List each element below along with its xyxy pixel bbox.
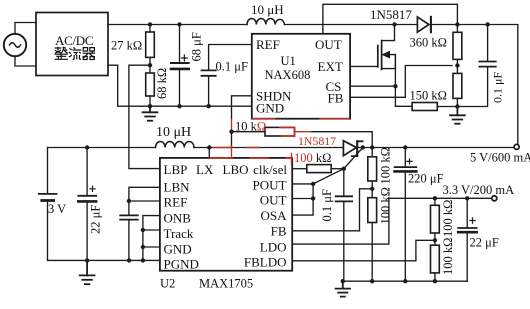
- ground G1: [143, 106, 158, 121]
- svg-text:GND: GND: [256, 101, 284, 116]
- svg-text:OSA: OSA: [260, 208, 287, 223]
- wire U2 LDO to 3.3V rail: [292, 198, 389, 244]
- capacitor C3 0.1uF right: [457, 25, 495, 107]
- wire lower rail battery to inductor L2: [48, 147, 156, 149]
- svg-text:REF: REF: [256, 37, 280, 52]
- svg-text:22 μF: 22 μF: [470, 236, 499, 250]
- wire bottom rail top circuit to U1 GND: [118, 105, 252, 107]
- svg-text:150 kΩ: 150 kΩ: [410, 89, 447, 103]
- svg-text:FBLDO: FBLDO: [244, 255, 287, 270]
- ground G2: [450, 107, 465, 124]
- svg-text:10 μH: 10 μH: [251, 2, 284, 17]
- svg-text:LBO: LBO: [223, 162, 249, 177]
- svg-text:POUT: POUT: [253, 178, 287, 193]
- wire POUT-OUT-OSA tie: [292, 184, 313, 215]
- svg-text:OUT: OUT: [260, 193, 287, 208]
- diode D1 1N5817 top: [417, 17, 431, 32]
- wire diagonal diode node to clk node: [344, 148, 363, 169]
- terminal 3.3V/200mA: [492, 196, 497, 201]
- wire SHDN node red segment: [231, 119, 233, 132]
- svg-text:AC/DC: AC/DC: [55, 33, 93, 48]
- svg-text:1N5817: 1N5817: [298, 134, 336, 148]
- svg-text:LBP: LBP: [164, 162, 188, 177]
- IC U2 MAX1705 box: [160, 158, 292, 271]
- capacitor C5 220uF electrolytic: [395, 148, 417, 282]
- svg-text:3.3 V/200 mA: 3.3 V/200 mA: [443, 183, 515, 197]
- svg-text:U1: U1: [281, 54, 296, 68]
- resistor R9 100k vertical lower mid: [368, 189, 377, 281]
- svg-text:U2: U2: [160, 277, 175, 291]
- wire lower rail L2 to diode D2: [194, 147, 343, 149]
- resistor R10 100k vertical right upper: [431, 198, 440, 240]
- resistor R5 360k vertical: [453, 25, 462, 66]
- wire LBO vertical to U2: [231, 132, 233, 146]
- diode D2 1N5817 schottky: [343, 141, 362, 156]
- wire U2 FB to mid divider: [292, 189, 372, 231]
- svg-text:PGND: PGND: [164, 257, 199, 272]
- svg-text:68 μF: 68 μF: [190, 32, 204, 61]
- resistor R7 100k clk/sel horizontal: [292, 165, 344, 173]
- resistor R2 68k vertical: [146, 65, 155, 106]
- wire U1 SHDN to LBO node: [232, 96, 252, 119]
- svg-text:68 kΩ: 68 kΩ: [155, 68, 169, 99]
- wire bottom left rail to U2 PGND: [48, 259, 160, 261]
- capacitor C8 REF bypass: [120, 187, 160, 260]
- svg-text:27 kΩ: 27 kΩ: [111, 39, 142, 53]
- svg-text:ONB: ONB: [164, 211, 192, 226]
- wire 3.3V rail to terminal: [389, 197, 492, 199]
- svg-text:LDO: LDO: [260, 240, 287, 255]
- resistor R8 100k vertical upper mid: [368, 148, 377, 189]
- label rectifier CJK (hand drawn): [55, 47, 96, 60]
- svg-text:10 μH: 10 μH: [156, 125, 191, 140]
- ground G4: [336, 281, 350, 296]
- inductor L2 10uH bottom: [156, 141, 195, 147]
- svg-text:LX: LX: [196, 162, 214, 177]
- inductor L1 10uH top: [247, 19, 284, 25]
- svg-text:OUT: OUT: [315, 37, 342, 52]
- wire divider junction to U2 LBP: [129, 65, 160, 168]
- svg-text:0.1 μF: 0.1 μF: [216, 60, 248, 74]
- svg-text:360 kΩ: 360 kΩ: [410, 36, 447, 50]
- svg-text:0.1 μF: 0.1 μF: [491, 72, 505, 103]
- wire diagonal clk node to POUT node: [313, 169, 344, 184]
- wire top rail from L1 to diode D1 anode: [285, 24, 418, 26]
- svg-text:10 kΩ: 10 kΩ: [235, 120, 266, 134]
- wire LX pin: [208, 148, 210, 158]
- svg-text:1N5817: 1N5817: [370, 7, 412, 22]
- resistor R3 10k horizontal: [232, 127, 373, 147]
- svg-text:5 V/600 mA: 5 V/600 mA: [470, 151, 530, 165]
- char zheng: [55, 47, 68, 54]
- ground G3: [80, 260, 95, 284]
- terminal 5V/600mA: [514, 144, 519, 149]
- svg-text:100 kΩ: 100 kΩ: [441, 200, 455, 237]
- red dashes on U2 top edge: [210, 157, 292, 159]
- svg-text:EXT: EXT: [318, 59, 343, 74]
- battery BT1 3V: [39, 148, 57, 261]
- resistor R11 100k vertical right lower: [431, 240, 440, 281]
- AC/DC rectifier block: [36, 13, 108, 76]
- svg-text:22 μF: 22 μF: [89, 205, 103, 234]
- red annotation dashes: [213, 119, 349, 164]
- capacitor C2 0.1uF: [202, 45, 252, 107]
- wire bottom right ground rail: [343, 280, 467, 282]
- svg-text:100 kΩ: 100 kΩ: [379, 147, 393, 184]
- wire rectifier lower output to bottom rail: [108, 65, 118, 106]
- wire U2 ONB Track GND tie: [143, 216, 160, 261]
- resistor R6 divider lower vertical: [453, 66, 462, 107]
- svg-text:clk/sel: clk/sel: [253, 162, 287, 177]
- resistor R4 sense (150k label) horizontal: [412, 103, 457, 111]
- char liu: [69, 48, 82, 60]
- svg-text:FB: FB: [328, 91, 344, 106]
- capacitor C4 0.1uF mid: [336, 169, 353, 282]
- AC source V1: [4, 34, 26, 56]
- svg-text:100 kΩ: 100 kΩ: [294, 151, 331, 165]
- capacitor C1 68uF electrolytic: [171, 25, 189, 107]
- wire U1 FB to divider node: [350, 66, 452, 98]
- resistor R1 27k vertical: [146, 25, 155, 66]
- svg-text:100 kΩ: 100 kΩ: [379, 187, 393, 224]
- svg-text:REF: REF: [164, 195, 188, 210]
- wire rail after D1 to right edge down to 5V terminal: [431, 25, 518, 145]
- wire U2 FBLDO to right divider node: [292, 240, 435, 260]
- wire U1 CS to MOSFET drain: [350, 85, 395, 87]
- svg-text:MAX1705: MAX1705: [199, 277, 253, 291]
- wire U1 OUT pin up and over to post-diode node: [323, 4, 458, 34]
- op IC U1 NAX608 box: [252, 34, 350, 119]
- svg-text:LBN: LBN: [164, 180, 191, 195]
- char qi: [83, 48, 96, 60]
- wire top rail from rectifier to inductor L1: [108, 24, 247, 26]
- svg-text:FB: FB: [271, 224, 287, 239]
- capacitor C7 22uF electrolytic left: [78, 148, 96, 261]
- wire AC source to rectifier: [15, 23, 36, 67]
- svg-text:3 V: 3 V: [48, 202, 66, 216]
- svg-text:Track: Track: [164, 226, 194, 241]
- svg-text:100 kΩ: 100 kΩ: [441, 238, 455, 275]
- capacitor C6 22uF electrolytic right: [458, 198, 476, 281]
- svg-text:0.1 μF: 0.1 μF: [320, 189, 334, 221]
- wire drain to Rcs: [395, 105, 412, 107]
- svg-text:220 μF: 220 μF: [408, 172, 444, 186]
- wire rail diode cathode to 5V terminal: [357, 147, 514, 149]
- svg-text:GND: GND: [164, 242, 192, 257]
- svg-text:NAX608: NAX608: [265, 68, 311, 82]
- transistor Q1 P-MOSFET: [350, 25, 395, 107]
